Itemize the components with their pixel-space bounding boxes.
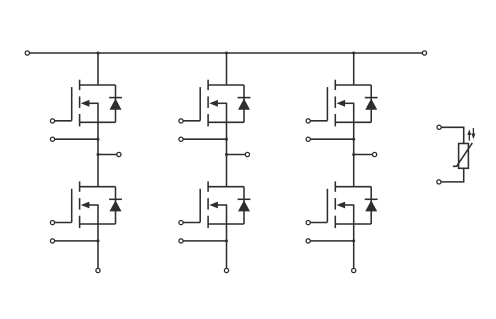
wire: DC bus to drain of Q1 (leg 1) xyxy=(97,53,99,85)
transistor Q5 (high-side leg 3) (N-MOSFET) xyxy=(327,80,371,127)
node: aux source junction Q2 xyxy=(97,239,100,242)
node: bus junction leg 1 xyxy=(97,52,100,55)
transistor Q3 (high-side leg 2) (N-MOSFET) xyxy=(200,80,244,127)
wire: auxiliary source lead Q2 xyxy=(55,240,98,242)
wire: Q6 source to DC- terminal leg 3 xyxy=(353,224,355,268)
terminal: thermistor T2 xyxy=(437,180,441,184)
node: phase junction leg 1 xyxy=(97,153,100,156)
thermistor R1 (NTC) xyxy=(453,143,472,168)
transistor Q6 (low-side leg 3) (N-MOSFET) xyxy=(327,181,371,228)
terminal: aux source S2 xyxy=(50,239,54,243)
wire: phase output branch leg 1 xyxy=(98,154,117,156)
wire: phase leg 1 (Q1 source to Q2 drain) xyxy=(97,122,99,186)
wire: thermistor top lead xyxy=(441,127,464,143)
node: bus junction leg 2 xyxy=(225,52,228,55)
wire: gate lead Q2 xyxy=(55,222,72,224)
terminal: DC+ (right) xyxy=(422,51,426,55)
wire: phase leg 2 (Q3 source to Q4 drain) xyxy=(226,122,228,186)
terminal: DC- leg 3 xyxy=(352,268,356,272)
terminal: aux source S3 xyxy=(179,137,183,141)
wire: DC bus to drain of Q3 (leg 2) xyxy=(226,53,228,85)
wire: gate lead Q4 xyxy=(183,222,200,224)
wire: auxiliary source lead Q3 xyxy=(183,138,226,140)
diode D3 (body diode) xyxy=(238,85,251,122)
wire: gate lead Q1 xyxy=(55,120,72,122)
terminal: DC- leg 2 xyxy=(224,268,228,272)
terminal: aux source S5 xyxy=(306,137,310,141)
wire: gate lead Q6 xyxy=(310,222,327,224)
diode D6 (body diode) xyxy=(365,187,378,224)
wire: thermistor bottom lead xyxy=(441,168,464,182)
terminal: gate G2 xyxy=(50,221,54,225)
transistor Q4 (low-side leg 2) (N-MOSFET) xyxy=(200,181,244,228)
terminal: aux source S6 xyxy=(306,239,310,243)
terminal: gate G3 xyxy=(179,119,183,123)
terminal: phase output 1 xyxy=(117,152,121,156)
node: aux source junction Q5 xyxy=(352,138,355,141)
terminal: DC- leg 1 xyxy=(96,268,100,272)
terminal: aux source S1 xyxy=(50,137,54,141)
node: aux source junction Q3 xyxy=(225,138,228,141)
wire: Q4 source to DC- terminal leg 2 xyxy=(226,224,228,268)
terminal: DC+ (left) xyxy=(25,51,29,55)
node: phase junction leg 2 xyxy=(225,153,228,156)
wire: phase output branch leg 2 xyxy=(227,154,246,156)
terminal: thermistor T1 xyxy=(437,125,441,129)
temperature arrows (up/down) on R1 xyxy=(467,128,475,141)
wire: gate lead Q5 xyxy=(310,120,327,122)
diode D5 (body diode) xyxy=(365,85,378,122)
terminal: gate G6 xyxy=(306,221,310,225)
wire: DC bus to drain of Q5 (leg 3) xyxy=(353,53,355,85)
node: bus junction leg 3 xyxy=(352,52,355,55)
node: aux source junction Q4 xyxy=(225,239,228,242)
terminal: phase output 2 xyxy=(245,152,249,156)
wire: Q2 source to DC- terminal leg 1 xyxy=(97,224,99,268)
terminal: phase output 3 xyxy=(373,152,377,156)
wire: positive DC bus xyxy=(29,52,422,54)
terminal: gate G1 xyxy=(50,119,54,123)
wire: phase leg 3 (Q5 source to Q6 drain) xyxy=(353,122,355,186)
wire: auxiliary source lead Q5 xyxy=(310,138,353,140)
terminal: gate G4 xyxy=(179,221,183,225)
node: phase junction leg 3 xyxy=(352,153,355,156)
wire: auxiliary source lead Q1 xyxy=(55,138,98,140)
wire: auxiliary source lead Q6 xyxy=(310,240,353,242)
diode D1 (body diode) xyxy=(109,85,122,122)
transistor Q2 (low-side leg 1) (N-MOSFET) xyxy=(72,181,116,228)
wire: phase output branch leg 3 xyxy=(354,154,373,156)
terminal: aux source S4 xyxy=(179,239,183,243)
diode D4 (body diode) xyxy=(238,187,251,224)
node: aux source junction Q6 xyxy=(352,239,355,242)
wire: auxiliary source lead Q4 xyxy=(183,240,226,242)
transistor Q1 (high-side leg 1) (N-MOSFET) xyxy=(72,80,116,127)
terminal: gate G5 xyxy=(306,119,310,123)
node: aux source junction Q1 xyxy=(97,138,100,141)
wire: gate lead Q3 xyxy=(183,120,200,122)
diode D2 (body diode) xyxy=(109,187,122,224)
